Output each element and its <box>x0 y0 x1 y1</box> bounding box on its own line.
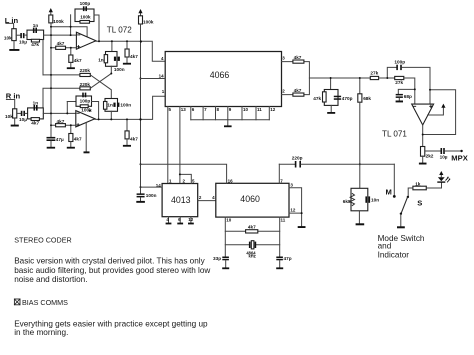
svg-text:STEREO CODER: STEREO CODER <box>14 235 72 244</box>
svg-text:8: 8 <box>217 107 220 112</box>
svg-text:100k: 100k <box>80 15 91 20</box>
capacitor 1n parallel 100n (R block) <box>104 99 132 120</box>
supply arrow (TL071) <box>428 104 446 115</box>
svg-text:100k: 100k <box>143 20 154 25</box>
ground (switch) <box>397 215 405 229</box>
wire 4060 pin7 riser <box>279 164 283 183</box>
svg-text:2k2: 2k2 <box>426 153 434 158</box>
resistor 220k (upper matrix) <box>43 68 111 98</box>
wire 4013 pin2 to pin5 loop <box>179 173 191 183</box>
svg-text:1k: 1k <box>415 181 421 186</box>
ground (100n) <box>136 197 145 202</box>
wire bias bus x51 <box>50 23 52 126</box>
capacitor 10u (R input) <box>19 111 27 122</box>
svg-text:14: 14 <box>156 183 162 188</box>
svg-text:5: 5 <box>192 179 195 184</box>
resistor 4k7 (pin 3) <box>293 55 304 63</box>
svg-text:47k: 47k <box>313 96 321 101</box>
resistor 4k7 (oscillator) <box>225 225 279 234</box>
junction dots <box>50 26 142 188</box>
capacitor 1n parallel resistor 47k (L input block) <box>27 23 44 47</box>
svg-text:1: 1 <box>162 89 165 94</box>
IC 4066 <box>165 52 281 107</box>
svg-text:10k: 10k <box>5 114 13 119</box>
svg-text:TL 072: TL 072 <box>107 25 132 34</box>
svg-text:13: 13 <box>181 107 187 112</box>
svg-text:1n: 1n <box>98 58 104 63</box>
svg-text:6k8: 6k8 <box>343 199 351 204</box>
wire R output line <box>95 96 165 119</box>
ground (pilot filter) <box>356 211 365 226</box>
svg-text:3: 3 <box>290 182 293 187</box>
resistor 220k (lower matrix) <box>43 74 111 119</box>
capacitor 33p <box>213 256 229 269</box>
svg-text:27k: 27k <box>370 71 378 76</box>
svg-text:kHz: kHz <box>249 254 256 259</box>
resistor 47k parallel capacitor 470p <box>313 78 352 105</box>
svg-text:100n: 100n <box>120 102 131 107</box>
wire R- input line <box>43 112 76 114</box>
label BIAS COMMS <box>14 298 68 307</box>
svg-text:12: 12 <box>290 208 296 213</box>
svg-text:4k7: 4k7 <box>31 121 39 126</box>
svg-text:220p: 220p <box>292 155 303 160</box>
resistor 1k (LED) <box>413 181 442 189</box>
crystal 4864 kHz <box>225 241 279 259</box>
node L in <box>5 16 19 29</box>
op-amp U2 TL071 <box>412 104 434 125</box>
svg-text:11: 11 <box>281 217 286 222</box>
pin 14 <box>141 73 166 78</box>
svg-text:4k7: 4k7 <box>130 136 138 141</box>
resistor 4k7 (L+ series) <box>56 41 66 49</box>
capacitor 1n parallel resistor 4k7 (R input block) <box>28 100 44 125</box>
4066 bottom pins 5 13 <box>168 107 186 184</box>
svg-text:Indicator: Indicator <box>378 251 410 260</box>
svg-text:220k: 220k <box>80 68 91 73</box>
svg-text:in the morning.: in the morning. <box>14 328 68 337</box>
4060 pins 3 12 to ground <box>289 182 306 228</box>
supply arrow (mid 100k) <box>138 9 142 16</box>
wire feedback to L- input <box>70 15 72 35</box>
svg-text:68p: 68p <box>404 94 412 99</box>
svg-text:10µ: 10µ <box>440 154 448 159</box>
svg-text:MPX: MPX <box>451 154 467 163</box>
ground (4066 bus) <box>224 120 232 127</box>
ground (R op-amp V-) <box>84 123 90 154</box>
resistor 68k <box>358 78 372 188</box>
svg-text:11: 11 <box>257 107 262 112</box>
capacitor 10u (MPX out) <box>425 148 462 159</box>
svg-text:47µ: 47µ <box>56 137 64 142</box>
wire TL071 feedback loop <box>423 90 456 135</box>
wire rail to op-amp L supply <box>51 27 87 37</box>
resistor 100k (left bias) <box>49 15 64 24</box>
svg-text:12: 12 <box>270 107 276 112</box>
label quote <box>14 319 208 337</box>
svg-text:4k7: 4k7 <box>74 58 82 63</box>
svg-text:16: 16 <box>228 178 234 183</box>
label description paragraph <box>14 257 210 285</box>
supply arrow (left 100k) <box>49 8 53 15</box>
resistor 4k7 vertical (R gain) <box>69 125 82 141</box>
resistor 10k (R input) <box>5 109 17 119</box>
4013 top pin labels 1 2 5 <box>169 179 195 184</box>
resistor 4k7 (R+ series) <box>56 119 66 127</box>
svg-text:220k: 220k <box>80 82 91 87</box>
resistor 4k7 (pin 2) <box>293 88 304 96</box>
svg-text:4k7: 4k7 <box>74 137 82 142</box>
svg-text:470p: 470p <box>342 96 353 101</box>
svg-text:33p: 33p <box>213 256 221 261</box>
IC 4060 <box>216 183 289 217</box>
resistor 10k (L input) <box>4 29 16 41</box>
node R in <box>6 92 21 109</box>
svg-text:1n: 1n <box>107 102 113 107</box>
svg-text:BIAS COMMS: BIAS COMMS <box>22 298 68 307</box>
svg-text:100p: 100p <box>80 1 91 6</box>
capacitor 100p over resistor 100k (L feedback) <box>75 1 94 23</box>
ground (L gain) <box>67 62 75 69</box>
resistor 27k (first) <box>370 71 394 80</box>
svg-text:68k: 68k <box>363 96 371 101</box>
capacitor 47p <box>276 256 292 269</box>
op-amp U1a TL072 <box>76 32 96 49</box>
pin 3 wire <box>282 56 310 95</box>
wire summing node <box>309 77 370 79</box>
ground (47k 470p) <box>327 105 335 113</box>
svg-text:4k7: 4k7 <box>294 55 302 60</box>
switch S <box>400 188 423 215</box>
resistor 6k8 parallel capacitor 10n (pilot filter) <box>343 188 379 211</box>
capacitor 100n (rail decoupling) <box>137 193 157 198</box>
svg-text:10: 10 <box>226 217 232 222</box>
wire <box>25 112 28 114</box>
svg-text:2: 2 <box>282 89 285 94</box>
svg-text:1n: 1n <box>33 23 39 28</box>
svg-text:S: S <box>417 199 422 208</box>
svg-text:Everything gets easier with pr: Everything gets easier with practice exc… <box>14 319 208 328</box>
svg-text:4: 4 <box>161 56 164 61</box>
wire feedback to R- input <box>66 102 68 114</box>
node M <box>386 164 396 198</box>
svg-text:14: 14 <box>159 73 165 78</box>
svg-text:and: and <box>378 242 392 251</box>
svg-text:M: M <box>386 187 392 196</box>
svg-text:2: 2 <box>199 195 202 200</box>
svg-text:basic audio filtering, but pro: basic audio filtering, but provides good… <box>14 266 210 275</box>
svg-text:3: 3 <box>282 56 285 61</box>
svg-text:100p: 100p <box>80 98 91 103</box>
capacitor 220p <box>279 155 394 167</box>
ground (68p) <box>396 98 403 103</box>
svg-text:TL 071: TL 071 <box>382 130 407 139</box>
op-amp U1b TL072 <box>76 111 95 127</box>
svg-text:Basic version with crystal der: Basic version with crystal derived pilot… <box>14 257 205 266</box>
LED indicator <box>437 171 450 183</box>
svg-text:4013: 4013 <box>171 195 191 205</box>
svg-text:6: 6 <box>192 107 195 112</box>
svg-text:4066: 4066 <box>210 70 230 80</box>
wire 4060 pin16 to rail <box>141 164 234 183</box>
capacitor 47u (bias decoupling) <box>47 125 65 142</box>
svg-text:10n: 10n <box>371 198 379 203</box>
svg-text:4k7: 4k7 <box>294 88 302 93</box>
svg-text:12: 12 <box>188 217 194 222</box>
svg-text:1: 1 <box>169 179 172 184</box>
ground (2k2) <box>419 156 427 164</box>
wire L output line <box>96 41 165 61</box>
svg-text:10µ: 10µ <box>19 117 27 122</box>
svg-text:4k7: 4k7 <box>57 119 65 124</box>
svg-text:1n: 1n <box>33 100 39 105</box>
ground (L input 10k) <box>9 41 19 51</box>
svg-text:4060: 4060 <box>240 194 260 204</box>
wire L+ line <box>51 47 76 49</box>
resistor 100k (V+ rail) <box>139 16 154 25</box>
resistor 4k7 to ground (L output) <box>123 41 138 64</box>
svg-text:7: 7 <box>280 178 283 183</box>
IC 4013 <box>162 184 198 217</box>
4066 grounded pins 6 7 8 9 10 11 12 <box>191 107 276 120</box>
wire <box>16 34 20 36</box>
svg-text:10µ: 10µ <box>19 39 27 44</box>
svg-text:4k7: 4k7 <box>248 225 256 230</box>
ground (47u) <box>47 141 55 149</box>
wire L- input line <box>44 34 77 36</box>
wire feedback right <box>94 15 99 41</box>
capacitor 10u (L input) <box>19 33 27 44</box>
resistor 4k7 to ground (R output) <box>123 119 138 146</box>
svg-text:2: 2 <box>183 179 186 184</box>
capacitor 1n parallel 100n (L output block) <box>98 41 125 73</box>
wire V+ rail bus <box>140 24 142 193</box>
svg-text:100p: 100p <box>394 60 405 65</box>
svg-text:7: 7 <box>204 107 207 112</box>
wire 4013 to 4060 link <box>198 195 216 201</box>
wire R+ line <box>51 124 76 126</box>
svg-text:4k7: 4k7 <box>130 54 138 59</box>
node MPX <box>451 150 467 163</box>
svg-text:100k: 100k <box>53 19 64 24</box>
svg-text:100n: 100n <box>114 67 125 72</box>
wire <box>17 112 21 114</box>
svg-text:10: 10 <box>243 107 249 112</box>
svg-text:100n: 100n <box>146 193 157 198</box>
svg-text:47k: 47k <box>31 42 39 47</box>
wire <box>25 34 28 36</box>
svg-text:4: 4 <box>212 195 215 200</box>
svg-text:5: 5 <box>169 107 172 112</box>
capacitor 68p <box>396 89 415 99</box>
svg-text:27k: 27k <box>395 80 403 85</box>
svg-text:10k: 10k <box>4 36 12 41</box>
label Mode Switch and Indicator <box>378 234 425 260</box>
junction dots right <box>330 77 431 165</box>
svg-text:9: 9 <box>229 107 232 112</box>
wire to 220k upper <box>42 40 44 75</box>
resistor 27k (second) <box>395 76 415 104</box>
svg-text:noise and distortion.: noise and distortion. <box>14 275 87 284</box>
ground (R gain) <box>67 142 75 149</box>
ground (R input 10k) <box>11 118 19 127</box>
wire 4013 pin14 <box>141 183 163 188</box>
svg-text:47p: 47p <box>284 256 292 261</box>
4060 crystal pins 10 11 <box>225 217 285 256</box>
resistor 4k7 vertical (L gain) <box>69 48 82 63</box>
4013 bottom grounds pins 4 6 10 <box>166 217 194 225</box>
capacitor 100p (TL071 feedback) <box>387 60 430 105</box>
svg-text:4k7: 4k7 <box>57 41 65 46</box>
resistor 2k2 <box>421 135 434 159</box>
capacitor 100p over resistor 100k (R feedback) <box>67 93 98 120</box>
